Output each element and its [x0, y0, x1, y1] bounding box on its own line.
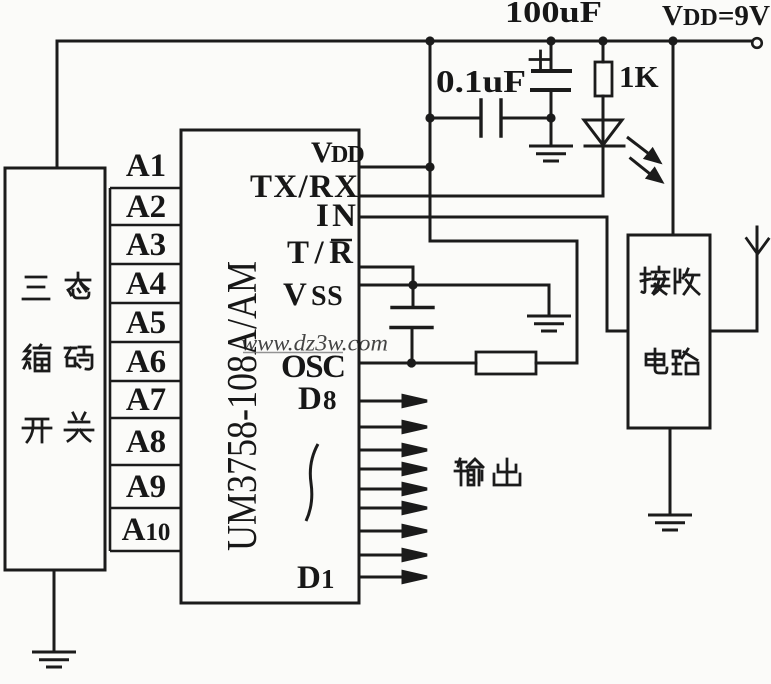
- output arrow D4: [360, 507, 405, 510]
- junction 0.1uF right: [546, 113, 555, 122]
- svg-text:D: D: [297, 560, 321, 596]
- wire: vertical x=430 rail to corner, over to x=577, down to OSC resistor: [430, 41, 577, 363]
- U1 right-side pin labels: [250, 136, 364, 596]
- 接 (receiver box): [641, 267, 669, 294]
- wire: VDD top rail: [57, 40, 752, 43]
- svg-text:D: D: [298, 381, 322, 417]
- svg-text:V: V: [311, 136, 333, 169]
- wire: IN pin of U1 to receiver: [360, 217, 628, 331]
- A1..A10 row lines and left vertical: [110, 188, 181, 551]
- wire: VDD pin of U1: [360, 166, 430, 169]
- row line below A2: [110, 224, 181, 227]
- svg-text:A3: A3: [126, 227, 166, 263]
- LED emission arrow 2: [630, 158, 653, 176]
- svg-text:V: V: [283, 277, 307, 313]
- resistor R1 1K stem top: [602, 41, 605, 62]
- row line below A4: [110, 302, 181, 305]
- receiver box 接收电路: [628, 235, 710, 428]
- svg-text:A9: A9: [126, 469, 166, 505]
- svg-text:1K: 1K: [619, 59, 659, 94]
- resistor R2 body: [476, 352, 536, 374]
- wire: 0.1uF branch right segment: [501, 117, 551, 120]
- capacitor C3 plates: [391, 308, 433, 328]
- svg-text:A7: A7: [126, 382, 166, 418]
- 收 (receiver box): [675, 269, 699, 294]
- svg-text:0.1uF: 0.1uF: [436, 63, 526, 99]
- encoder switch box (tri-state encoder switches): [5, 168, 105, 570]
- wire/cell divider vertical: [109, 188, 112, 551]
- svg-text:100uF: 100uF: [505, 0, 602, 29]
- wire: LED cathode down to TX/RX line: [602, 146, 605, 196]
- svg-text:VDD=9V: VDD=9V: [662, 0, 770, 32]
- output arrow: [360, 488, 405, 491]
- row line below A9: [110, 507, 181, 510]
- wire: TX/RX pin of U1 to LED: [360, 195, 603, 198]
- junction 0.1uF left: [425, 113, 434, 122]
- wire: OSC pin of U1: [360, 362, 476, 365]
- junction OSC: [407, 358, 416, 367]
- svg-text:A4: A4: [126, 266, 166, 302]
- svg-text:A5: A5: [126, 305, 166, 341]
- 路 (receiver box): [673, 349, 698, 374]
- LED emission arrow 1: [627, 137, 650, 155]
- svg-text:1: 1: [321, 564, 335, 594]
- svg-text:8: 8: [323, 385, 337, 415]
- output arrow D1: [360, 576, 405, 579]
- row line below A7: [110, 417, 181, 420]
- wire: T/R pin of U1: [360, 267, 413, 285]
- ground: under 100uF/0.1uF junction: [529, 146, 573, 161]
- row line below A6: [110, 380, 181, 383]
- capacitor C1 plates: [533, 69, 570, 73]
- capacitor C1 100uF electrolytic: stem: [550, 41, 553, 71]
- wire: junction down to ground: [550, 118, 553, 146]
- capacitor C3 at OSC: stem from T/R junction: [412, 285, 415, 307]
- junction rail/receiver: [668, 36, 677, 45]
- output arrow D7: [360, 426, 405, 429]
- watermark www.dz3w.com: [241, 331, 388, 356]
- wire: R2 right to vertical: [536, 362, 577, 365]
- svg-text:IN: IN: [316, 198, 356, 234]
- junction rail/R1: [598, 36, 607, 45]
- capacitor C1 plus sign: [530, 51, 549, 68]
- output arrow D2: [360, 554, 405, 557]
- 开 (encoder box): [23, 419, 51, 442]
- row line below A5: [110, 341, 181, 344]
- junction rail/x430: [425, 36, 434, 45]
- 出 (output label): [494, 459, 520, 485]
- output arrow D3: [360, 530, 405, 533]
- svg-text:A6: A6: [126, 344, 166, 380]
- row line below A3: [110, 263, 181, 266]
- row line below A10: [110, 550, 181, 553]
- junction VDD pin: [425, 162, 434, 171]
- 编 (encoder box): [24, 345, 50, 371]
- ground: under encoder box: [32, 652, 76, 667]
- ground: Vss: [527, 316, 571, 331]
- wire: encoder box bottom to ground: [53, 570, 56, 652]
- 态 (encoder box): [66, 273, 90, 298]
- row line below A8: [110, 464, 181, 467]
- svg-text:A1: A1: [126, 148, 166, 184]
- wire: receiver box bottom to ground: [669, 428, 672, 515]
- svg-text:SS: SS: [311, 281, 343, 312]
- overline of R: [331, 239, 352, 242]
- capacitor C3 stem to OSC wire: [411, 328, 414, 364]
- output arrows D8..D1: [360, 396, 427, 583]
- wire: R1 to LED: [602, 96, 605, 146]
- svg-text:DD: DD: [331, 142, 364, 168]
- LED VD1: [584, 120, 624, 146]
- wire: rail down to receiver box: [672, 41, 675, 235]
- wire: C1 bottom to junction: [550, 90, 553, 118]
- row line below A1: [110, 187, 181, 190]
- svg-text:A2: A2: [126, 189, 166, 225]
- squiggle between D8 and D1: [306, 444, 318, 521]
- output arrow D6: [360, 449, 405, 452]
- CJK glyph drawings: [23, 267, 699, 485]
- terminal VDD=9V: [752, 38, 762, 48]
- ground: receiver: [648, 515, 692, 530]
- junction dots: [407, 36, 678, 367]
- wire: rail down to encoder switch box: [56, 41, 59, 168]
- svg-text:A8: A8: [126, 424, 166, 460]
- antenna arrowhead: [747, 239, 769, 255]
- junction rail/C1: [546, 36, 555, 45]
- 码 (encoder box): [65, 347, 92, 369]
- 关 (encoder box): [65, 413, 93, 441]
- IC U1 UM3758-108A/AM body: [181, 130, 359, 603]
- resistor R1 1K body: [595, 62, 612, 96]
- 三 (encoder box): [23, 277, 49, 299]
- capacitor C2 0.1uF plates: [481, 100, 501, 136]
- 电 (receiver box): [646, 349, 667, 373]
- wire: 0.1uF branch left segment: [430, 117, 481, 120]
- output arrow D5: [360, 468, 405, 471]
- 输 (output label): [455, 459, 483, 485]
- pin labels A1..A10: [122, 148, 171, 548]
- wire: receiver right to antenna: [710, 227, 757, 331]
- wire: Vss pin of U1 to ground: [360, 285, 549, 316]
- junction T/R-Vss: [408, 280, 417, 289]
- svg-text:UM3758-108A/AM: UM3758-108A/AM: [220, 261, 266, 551]
- output arrow D8: [360, 400, 405, 403]
